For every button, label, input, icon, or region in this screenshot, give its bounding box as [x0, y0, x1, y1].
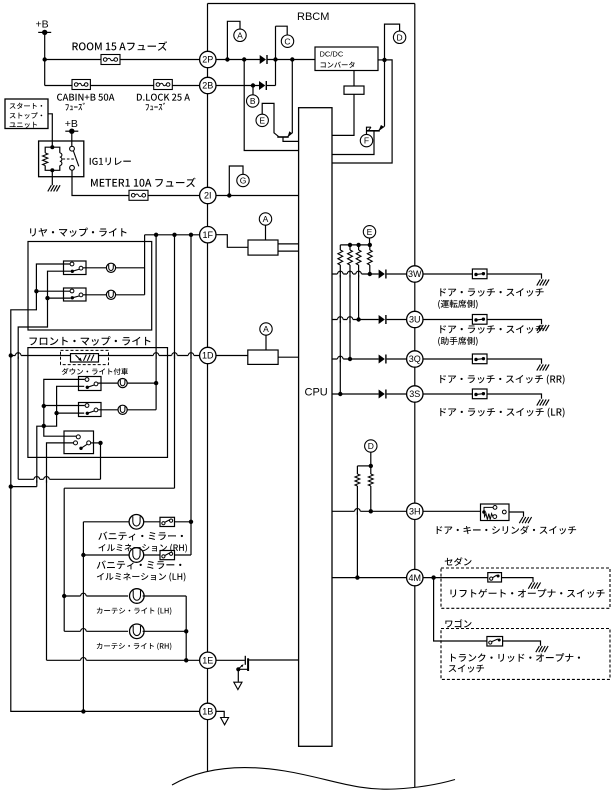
transistor Q2 output to CPU: [332, 131, 374, 155]
torn edge wave: [172, 768, 455, 790]
vanity RH row: [83, 521, 129, 523]
connector 3S: [407, 386, 423, 402]
CPU box: [299, 108, 332, 747]
switch2 top wire: [36, 290, 70, 292]
wire 1F bus down to lamps: [144, 235, 146, 295]
wire to ground: [509, 512, 524, 517]
wire 3-row y319.5 to door latch switch: [423, 319, 472, 321]
relay coil and resistor: [50, 145, 54, 149]
ground: [537, 399, 549, 405]
elbow to test point G: [229, 166, 243, 196]
courtesy LH row: [64, 595, 128, 597]
test point A: [234, 29, 246, 41]
label with down light: [62, 368, 128, 375]
wire 4M to branch node: [423, 577, 488, 579]
transistor Q1: [277, 136, 288, 138]
wire 2P dot down to transistor: [291, 60, 293, 134]
wire 3-row y394 to door latch switch: [423, 393, 472, 395]
ground: [519, 517, 531, 523]
wire to ground: [503, 641, 541, 646]
1D bus wire right of lamp unit: [98, 355, 199, 357]
down-light lamp unit dashed box: [61, 350, 109, 364]
test point D: [393, 31, 405, 43]
ground: [537, 364, 549, 370]
source wire to ground: [238, 669, 248, 682]
lamp2 wire to bus: [115, 294, 144, 296]
vanity LH row: [83, 554, 129, 556]
svg-text:3H: 3H: [409, 507, 421, 517]
door key cylinder switch: [481, 504, 510, 521]
output to CPU: [278, 356, 299, 358]
svg-text:1E: 1E: [202, 656, 213, 666]
interface box 1F: [248, 240, 278, 255]
right contact wire: [91, 442, 101, 444]
switch1 top wire: [44, 379, 85, 436]
row 3Q wire with diode: [332, 358, 379, 360]
far left vertical to 1B: [11, 356, 200, 712]
elbow test point E to transistor: [262, 103, 274, 133]
drain wire to CPU: [249, 659, 299, 661]
svg-text:CPU: CPU: [305, 387, 328, 399]
ground: [536, 646, 548, 652]
test point A2: [259, 213, 271, 225]
DC/DC output node: [382, 58, 386, 62]
label switch: [449, 664, 484, 672]
vanity mirror switch RH: [160, 517, 175, 526]
wire resistor to CPU: [332, 94, 354, 135]
resistor R-3H: [370, 466, 372, 474]
rear map switch 2: [64, 288, 87, 301]
front map switch 1: [79, 377, 102, 391]
svg-text:D: D: [368, 441, 374, 451]
wire 2B feed: [45, 85, 72, 87]
wire to ground: [487, 274, 542, 279]
wire DC/DC output to CPU right side: [332, 60, 392, 163]
label ROOM 15A fuse: [73, 41, 168, 50]
liftgate opener switch: [488, 573, 502, 582]
ground: [537, 325, 549, 331]
switch2 common wire: [48, 297, 71, 299]
wire to ground: [487, 394, 542, 399]
interface box 1D: [248, 350, 278, 364]
svg-text:1D: 1D: [202, 351, 214, 361]
rear map light box: [28, 242, 152, 331]
connector 1E: [200, 652, 216, 668]
wire to 2I: [148, 195, 200, 197]
connector 2P: [200, 51, 216, 67]
diode on 2P bus: [260, 55, 266, 64]
connector 3Q: [407, 351, 423, 367]
1D bus wire left of lamp unit: [11, 355, 71, 357]
door latch switch: [472, 315, 487, 325]
svg-text:+B: +B: [65, 118, 78, 130]
outputs to CPU: [278, 243, 299, 245]
wire return to 1B vertical: [11, 486, 37, 488]
wire to 2B: [172, 85, 199, 87]
label door latch switch: [440, 375, 564, 385]
stub to test point B: [252, 86, 254, 95]
fuse CABIN+B 50A: [72, 80, 90, 90]
resistor R-3W: [369, 245, 371, 250]
transistor Q2: [367, 130, 380, 132]
bus vertical 1F to vanity rows: [190, 235, 192, 555]
switch2 top wire: [44, 405, 85, 407]
test point E2: [363, 226, 375, 238]
svg-text:F: F: [364, 136, 369, 146]
resistor R-3U: [358, 245, 360, 250]
label vanity illumination RH: [98, 544, 187, 553]
test point E: [256, 114, 268, 126]
courtesy return vertical: [185, 596, 187, 660]
label liftgate opener switch: [450, 589, 604, 598]
rear map lamp 1: [106, 263, 115, 272]
door latch switch: [472, 389, 487, 399]
ground: [528, 583, 540, 589]
connector 2B: [200, 77, 216, 93]
bus vertical 1F to y486 wire: [174, 235, 176, 488]
rear map lamp 2: [106, 290, 115, 299]
vanity mirror lamp RH: [129, 515, 144, 530]
label door latch switch: [440, 408, 564, 418]
label D.LOCK 25A: [137, 94, 190, 101]
1B ground arrow: [216, 711, 224, 717]
pull-up bus for latch rows: [340, 244, 370, 246]
label rear map light: [30, 228, 126, 237]
relay switch contacts: [70, 146, 75, 151]
front map lamp 1: [118, 379, 127, 388]
1E row wire: [47, 659, 200, 661]
wagon dashed box: [441, 629, 610, 680]
relay coil ground: [51, 170, 53, 185]
label fuse: [146, 103, 165, 111]
label stop: [10, 112, 43, 119]
svg-text:2P: 2P: [202, 55, 213, 65]
test point C: [281, 35, 293, 47]
svg-text:D: D: [397, 32, 403, 42]
row 3U wire with diode: [332, 319, 379, 321]
wire 1F feed to courtesy lights: [64, 487, 174, 489]
svg-text:3S: 3S: [409, 389, 420, 399]
fuse ROOM 15A: [45, 59, 101, 61]
courtesy lamp LH: [130, 589, 145, 604]
lamp2 wire to bus vertical: [127, 409, 156, 411]
wire 1D to interface box: [216, 355, 248, 357]
wire start unit to relay: [48, 114, 52, 141]
lamp with down light: [71, 354, 99, 362]
svg-text:E: E: [367, 227, 373, 237]
test point B: [247, 95, 259, 107]
row 3H wire: [332, 510, 407, 512]
start-stop unit box: [5, 99, 48, 129]
label vanity illumination LH: [97, 573, 186, 582]
label door key cylinder switch: [437, 525, 576, 534]
svg-text:+B: +B: [36, 18, 49, 30]
rear map switch 1: [64, 261, 87, 275]
svg-text:3U: 3U: [409, 315, 421, 325]
lamp1 wire to bus: [115, 267, 144, 269]
wire patches where verticals pass under hops: [17, 352, 19, 359]
ground: [537, 279, 549, 285]
svg-text:3W: 3W: [408, 269, 422, 279]
svg-text:2B: 2B: [202, 81, 213, 91]
switch1 top contact wire: [11, 264, 70, 356]
label fuse: [65, 103, 84, 111]
wire right contact down to return bus: [100, 443, 102, 479]
label IG1 relay: [90, 158, 131, 166]
2P bus wire: [216, 59, 260, 61]
wire 4M branch down to trunk opener: [434, 578, 487, 641]
wire relay to METER1 fuse: [72, 170, 129, 195]
courtesy lamp RH: [130, 624, 145, 639]
fuse METER1 10A: [129, 190, 148, 200]
resistor R-3S: [339, 245, 341, 250]
svg-text:1B: 1B: [202, 707, 213, 717]
wire to ground: [502, 578, 534, 583]
label courtesy light RH: [97, 643, 172, 651]
wire 3-row y359 to door latch switch: [423, 358, 472, 360]
label vanity mirror LH 1: [97, 560, 182, 569]
wire to ground: [487, 359, 542, 364]
label trunk lid opener: [451, 653, 580, 662]
stub test point A: [265, 335, 267, 350]
label converter: [321, 62, 355, 68]
wire to 1F bus vertical: [175, 554, 192, 556]
test point A3: [260, 323, 272, 335]
label CABIN+B 50A: [57, 94, 114, 101]
switch1 common wire: [18, 271, 70, 479]
connector 3H: [407, 503, 423, 519]
svg-text:A: A: [263, 214, 269, 224]
door latch switch: [472, 269, 487, 279]
connector 1D: [200, 347, 216, 363]
relay IG1 box: [39, 141, 84, 177]
wire 1F to interface box: [216, 235, 248, 248]
vanity mirror switch LH: [160, 551, 175, 560]
label seat side: [438, 337, 477, 346]
svg-text:B: B: [250, 96, 256, 106]
courtesy feed vertical: [63, 488, 65, 631]
resistor R-4M: [356, 466, 358, 474]
vanity common vertical: [82, 522, 84, 712]
lamp1 wire to bus vertical: [127, 382, 156, 384]
connector 1B: [200, 703, 216, 719]
svg-text:A: A: [237, 30, 243, 40]
courtesy RH row: [64, 630, 128, 632]
svg-text:2I: 2I: [204, 191, 212, 201]
svg-text:RBCM: RBCM: [297, 11, 329, 23]
wire fuse to 2P: [120, 59, 200, 61]
resistor R-3Q: [349, 245, 351, 250]
svg-text:1F: 1F: [203, 230, 214, 240]
row 4M wire: [332, 577, 407, 579]
switch1 common wire: [37, 386, 84, 486]
connector 2I: [200, 187, 216, 203]
wire to ground: [487, 320, 542, 325]
svg-text:DC/DC: DC/DC: [320, 50, 344, 59]
1E wire to driver: [216, 659, 245, 661]
1F bus to map lights: [145, 234, 200, 236]
bus vertical from 1F into front box: [155, 235, 157, 410]
wire 2P bus down to CPU: [244, 60, 298, 151]
svg-text:C: C: [284, 36, 290, 46]
elbow to test point D: [385, 24, 400, 60]
row 3W wire with diode: [332, 273, 379, 275]
label courtesy light LH: [97, 607, 172, 615]
label unit: [10, 122, 37, 128]
label front map light: [29, 336, 150, 346]
svg-text:4M: 4M: [409, 573, 422, 583]
DC/DC converter box: [315, 47, 378, 71]
switch2 to lamp wire: [83, 294, 107, 296]
connector 3W: [407, 266, 423, 282]
door switch (2-pole) front: [64, 431, 94, 454]
vertical joining 2B diode to 2P bus and C: [275, 26, 277, 85]
wire to relay switch: [71, 131, 73, 146]
label seat side: [438, 300, 477, 309]
label start: [10, 103, 43, 109]
sedan dashed box: [441, 568, 610, 608]
door latch switch: [472, 354, 487, 364]
svg-text:3Q: 3Q: [409, 354, 421, 364]
test point F: [360, 134, 372, 146]
mosfet driver Q3: [244, 656, 246, 665]
vanity common vertical (drawn later over row hops): [81, 553, 85, 557]
wire 3H to key cylinder switch: [423, 510, 481, 512]
switch1 to lamp wire: [83, 267, 107, 269]
test point D2: [365, 440, 377, 452]
stub D2: [370, 452, 372, 466]
switch1 to lamp: [98, 382, 118, 384]
trunk lid opener switch: [487, 637, 503, 647]
return wire y479: [18, 478, 100, 480]
transistor Q1 output to CPU: [283, 137, 299, 141]
front map switch 2: [79, 403, 102, 417]
connector 3U: [407, 311, 423, 327]
fuse D.LOCK 25A: [154, 80, 173, 90]
svg-text:A: A: [263, 324, 269, 334]
2B bus wire with diode: [216, 85, 259, 87]
switch2 to lamp: [98, 409, 118, 411]
connector 1F: [200, 227, 216, 243]
elbow to test point A: [227, 21, 240, 59]
stub test point E2: [369, 238, 371, 245]
2I wire to CPU: [216, 195, 299, 197]
svg-text:E: E: [259, 116, 265, 126]
RBCM module box: [208, 3, 415, 5]
elbow test point F: [367, 127, 372, 134]
label door latch switch: [440, 288, 543, 297]
vanity mirror lamp LH: [129, 548, 144, 563]
label vanity mirror RH 1: [98, 532, 183, 541]
front map lamp 2: [118, 405, 127, 414]
svg-text:G: G: [240, 176, 247, 186]
row 3S wire with diode: [332, 393, 379, 395]
resistor below DC/DC: [353, 71, 355, 87]
test point G: [237, 174, 249, 186]
wire: [90, 85, 153, 87]
label door latch switch: [440, 325, 543, 334]
stub test point A: [265, 225, 267, 240]
connector 4M: [407, 569, 423, 585]
label METER1 fuse: [91, 178, 196, 188]
switch2 common wire: [57, 412, 85, 414]
ground arrow 1E: [234, 682, 242, 689]
wire +B down to fuse lines: [44, 32, 46, 85]
left contact wire down: [47, 443, 74, 660]
front map light box: [28, 348, 168, 458]
wire 3-row y274 to door latch switch: [423, 273, 472, 275]
